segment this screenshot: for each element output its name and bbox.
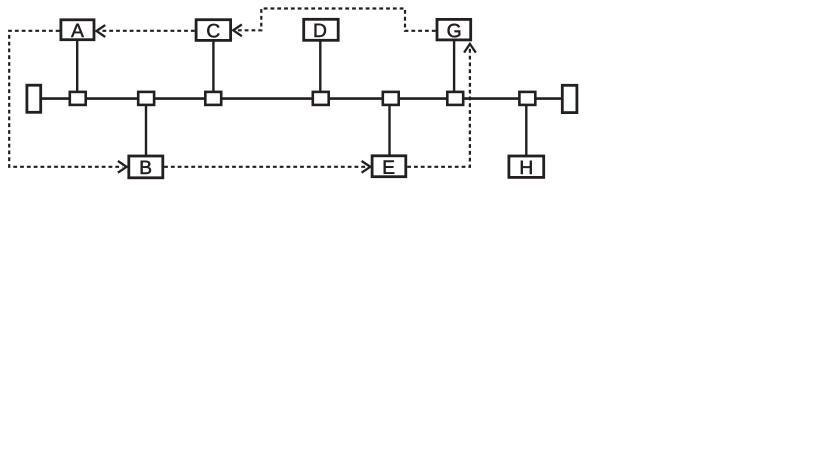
station B box [129, 156, 163, 178]
bus (horizontal trunk cable) [40, 97, 562, 100]
arrowhead into B [118, 161, 127, 173]
station H box [509, 156, 544, 177]
arrowhead into E [362, 161, 371, 173]
station C box [196, 20, 231, 41]
dashed link E to G (routed right and up) [407, 48, 470, 167]
wire tap6 to G [453, 41, 455, 92]
tap T2 [138, 92, 154, 105]
tap T4 [313, 92, 329, 105]
wire tap5 to E [388, 105, 390, 156]
wire tap4 to D [319, 41, 321, 92]
station B label [141, 161, 151, 174]
tap T6 [447, 92, 463, 105]
wire tap3 to C [212, 42, 214, 93]
dashed link G to C (routed above D) [237, 9, 436, 31]
station E box [372, 156, 406, 177]
tap T1 [70, 92, 86, 105]
station D label [315, 24, 326, 37]
station G box [437, 19, 471, 40]
station A label [71, 24, 84, 37]
dashed link C to A [100, 30, 195, 32]
wire tap7 to H [525, 105, 527, 156]
wire tap1 to A [76, 41, 78, 92]
tap T3 [205, 92, 221, 105]
station G label [448, 24, 461, 38]
terminator right [562, 85, 577, 112]
station E label [384, 161, 394, 174]
arrowhead into C [233, 24, 242, 36]
station A box [61, 20, 94, 40]
arrowhead into G [464, 44, 476, 53]
tap T5 [383, 92, 399, 105]
station C label [207, 24, 219, 38]
station H label [521, 161, 532, 174]
dashed link A to B (routed left and down) [9, 31, 122, 167]
arrowhead into A [97, 25, 106, 37]
dashed link B to E [164, 166, 366, 168]
wire tap2 to B [145, 105, 147, 156]
terminator left [27, 85, 41, 112]
tap T7 [519, 92, 535, 105]
station D box [304, 19, 339, 40]
